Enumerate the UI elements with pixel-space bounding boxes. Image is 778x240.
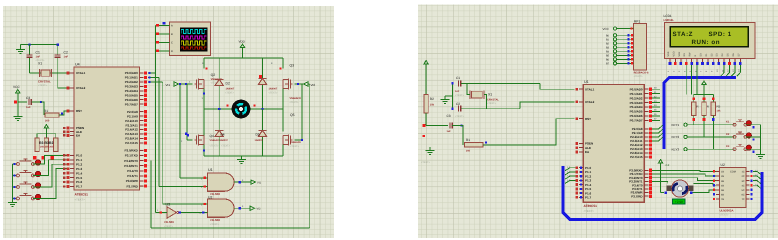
- svg-text:XTAL2: XTAL2: [76, 86, 86, 90]
- wire LCD E drop: [696, 65, 698, 95]
- port KEY1: [672, 123, 688, 127]
- ground (crystal, right panel): [441, 96, 453, 103]
- node junction C2 top: [57, 43, 59, 45]
- resistor R3 (second): [44, 138, 48, 152]
- wire scope channel A: [155, 24, 169, 27]
- resistor pack RP1: [634, 19, 649, 78]
- svg-text:XTAL1: XTAL1: [76, 71, 86, 75]
- wire motor right terminal to ULN: [693, 190, 716, 193]
- transistor Q5: [283, 113, 301, 148]
- AND gate U2 74LS08: [208, 195, 235, 226]
- svg-text:P3.6/WR: P3.6/WR: [126, 179, 139, 183]
- svg-text:COM: COM: [730, 171, 736, 174]
- terminal RP1 pin 7: [606, 58, 634, 62]
- pin 8 P1.7 (U4 left): [63, 185, 83, 189]
- wire motor right to ULN 4B: [694, 184, 717, 186]
- svg-text:2C: 2C: [741, 175, 744, 178]
- svg-text:P2.3/A11: P2.3/A11: [125, 123, 138, 127]
- svg-text:<TEXT>: <TEXT>: [38, 84, 48, 87]
- crystal X1: [38, 62, 52, 88]
- pin 4 4B (U2 ULN left): [713, 184, 725, 187]
- wire P3.1 to ULN 2B: [652, 174, 716, 176]
- wire P0.3 net stub: [652, 100, 660, 103]
- svg-text:P3.2/INT0: P3.2/INT0: [124, 159, 138, 163]
- svg-text:5B: 5B: [721, 189, 724, 192]
- svg-text:CRYSTAL: CRYSTAL: [38, 80, 51, 84]
- bus exit to P2.3: [652, 137, 663, 141]
- pin 3 P1.2 (U4 left): [63, 162, 83, 166]
- terminal RP1 pin 1: [606, 34, 634, 38]
- svg-text:VCC: VCC: [603, 27, 610, 31]
- terminal VCC (RP1 common): [603, 27, 634, 31]
- svg-text:U3: U3: [166, 202, 171, 206]
- oscilloscope channel labels: [171, 25, 173, 53]
- pin 33 P0.6/AD6 (U1 right): [630, 114, 652, 118]
- node junction R1 right: [61, 112, 63, 114]
- crystal X1 (right panel): [467, 83, 499, 108]
- pin 2 P1.1 (U4 left): [63, 158, 83, 162]
- pin 6 P1.5 (U4 left): [63, 176, 83, 180]
- svg-text:VN66AFD: VN66AFD: [290, 141, 301, 144]
- wire U2 output port: [234, 205, 261, 211]
- svg-text:1N4007: 1N4007: [269, 88, 278, 91]
- ULN2003A U2 body: [720, 163, 747, 216]
- pin 19 XTAL1 (U4 left): [67, 71, 86, 75]
- pin 16 P3.6/WR (U1 right): [631, 191, 652, 195]
- wire button1 to P1.0: [33, 155, 67, 164]
- svg-text:<TEXT>: <TEXT>: [290, 145, 300, 148]
- wire U1 input 2: [159, 185, 208, 189]
- svg-text:1N4007: 1N4007: [226, 88, 235, 91]
- pin 10 P3.0/RXD (U1 right): [629, 169, 652, 173]
- wire button4 to P1.3: [33, 169, 67, 199]
- microcontroller U1 AT89C51 body (right): [583, 80, 644, 213]
- pin 22 P2.1/A9 (U1 right): [632, 131, 652, 135]
- pin 30 ALE (U4 left): [63, 130, 82, 134]
- svg-text:1nF: 1nF: [64, 56, 69, 59]
- pin 27 P2.6/A14 (U1 right): [630, 151, 652, 155]
- node junction C3 right (right panel): [460, 124, 462, 126]
- svg-text:C2: C2: [456, 102, 460, 106]
- svg-text:VSS: VSS: [667, 51, 670, 56]
- wire vertical U1 in2 feed: [158, 78, 160, 187]
- pin 38 P0.1/AD1 (U1 right): [630, 92, 652, 96]
- wire Q2 source to motor node: [202, 89, 206, 110]
- svg-text:P3.7/RD: P3.7/RD: [126, 184, 138, 188]
- svg-text:U2: U2: [721, 163, 725, 167]
- pin 16 1C (U2 ULN right): [741, 170, 752, 173]
- pin 18 XTAL2 (U1 left): [575, 100, 594, 104]
- wire scope channel B: [155, 33, 169, 36]
- svg-text:<TEXT>: <TEXT>: [210, 145, 220, 148]
- bus entry P1.0 L1: [565, 166, 576, 171]
- svg-text:P1.5: P1.5: [76, 176, 83, 180]
- wire KEY1 row: [687, 124, 734, 126]
- pin D4 (LCD): [721, 53, 725, 72]
- wire P0.2 feed: [148, 81, 163, 83]
- svg-text:P0.5/AD5: P0.5/AD5: [630, 110, 643, 114]
- svg-text:<TEXT>: <TEXT>: [421, 161, 431, 164]
- pin 11 P3.1/TXD (U1 right): [630, 172, 652, 176]
- svg-text:RST: RST: [585, 117, 591, 121]
- motor speed readout: [673, 199, 686, 204]
- svg-text:R: R: [697, 105, 699, 109]
- resistor R1: [44, 109, 59, 123]
- AND gate U1 74LS08: [208, 168, 235, 196]
- svg-text:VCC: VCC: [13, 85, 20, 89]
- pin 15 2C (U2 ULN right): [741, 175, 752, 178]
- svg-text:D: D: [171, 50, 173, 53]
- oscilloscope body: [170, 22, 211, 56]
- pin 25 P2.4/A12 (U4 right): [125, 128, 147, 132]
- pin 17 P3.7/RD (U4 right): [126, 184, 147, 188]
- wire XTAL2 row: [58, 87, 70, 89]
- svg-text:P2.7/A15: P2.7/A15: [630, 155, 643, 159]
- transistor Q4: [195, 132, 221, 148]
- pin 10 7C (U2 ULN right): [741, 198, 752, 201]
- pin 28 P2.7/A15 (U1 right): [630, 155, 652, 159]
- pin D0 (LCD): [699, 53, 703, 72]
- svg-text:C2: C2: [64, 51, 68, 55]
- svg-text:U4: U4: [75, 63, 80, 67]
- svg-text:D4: D4: [221, 133, 225, 137]
- pin 6 P1.5 (U1 left): [575, 187, 591, 191]
- bus entry P1.2 L3: [565, 175, 576, 180]
- svg-text:XTAL2: XTAL2: [585, 100, 595, 104]
- pin D1 (LCD): [705, 53, 709, 72]
- pin 18 XTAL2 (U4 left): [67, 86, 86, 90]
- svg-text:P3.0/RXD: P3.0/RXD: [124, 149, 138, 153]
- svg-text:P2.1/A9: P2.1/A9: [127, 114, 138, 118]
- svg-text:<TEXT>: <TEXT>: [225, 92, 235, 95]
- capacitor C1: [27, 45, 46, 73]
- node motor left terminal: [664, 191, 667, 194]
- pin 12 5C (U2 ULN right): [741, 189, 752, 192]
- oscilloscope screen with waveforms: [180, 28, 207, 52]
- pin 34 P0.5/AD5 (U1 right): [630, 110, 652, 114]
- pin 1 P1.0 (U1 left): [575, 166, 591, 170]
- button K3: [726, 144, 755, 153]
- svg-text:P2.2/A10: P2.2/A10: [125, 119, 138, 123]
- pin 33 P0.6/AD6 (U4 right): [125, 98, 147, 102]
- svg-text:<TEXT>: <TEXT>: [221, 145, 231, 148]
- wire C2 to XTAL2 (right panel): [461, 102, 575, 109]
- pin D2 (LCD): [710, 53, 714, 72]
- wire crystal top rail: [21, 45, 58, 46]
- button K1: [726, 120, 755, 129]
- pin 26 P2.5/A13 (U4 right): [125, 132, 147, 136]
- power VDD (pull-ups): [702, 81, 706, 95]
- pin 38 P0.1/AD1 (U4 right): [125, 76, 147, 80]
- pin 37 P0.2/AD2 (U4 right): [125, 80, 147, 84]
- pin 31 EA (U1 left): [575, 150, 590, 154]
- wire P0.7 net stub: [652, 118, 660, 121]
- pin D3 (LCD): [716, 53, 720, 72]
- wire P0.6 net stub: [652, 113, 660, 116]
- pin 2 2B (U2 ULN left): [713, 175, 725, 178]
- wire pull-up rail (right panel): [692, 95, 714, 102]
- svg-text:+12: +12: [665, 163, 670, 167]
- power VCC (right panel): [424, 61, 428, 95]
- svg-text:P1.7: P1.7: [76, 185, 83, 189]
- svg-text:R1: R1: [466, 138, 470, 142]
- wire P3.3 to motor coil A: [652, 181, 668, 183]
- wire VI1 to Q2 gate: [179, 81, 193, 86]
- svg-text:R5: R5: [717, 105, 721, 109]
- svg-text:+2.98: +2.98: [675, 200, 683, 204]
- resistor R2 (third): [39, 138, 58, 152]
- svg-text:P0.1/AD1: P0.1/AD1: [630, 92, 643, 96]
- svg-text:P2.0/A8: P2.0/A8: [127, 110, 138, 114]
- wire scope channel C: [155, 41, 169, 44]
- wire motor right lead: [251, 104, 284, 110]
- svg-text:P0.6/AD6: P0.6/AD6: [125, 98, 138, 102]
- pin 3 3B (U2 ULN left): [713, 179, 725, 182]
- pin 15 P3.5/T1 (U4 right): [127, 174, 147, 178]
- pin 39 P0.0/AD0 (U4 right): [125, 71, 147, 75]
- pin 37 P0.2/AD2 (U1 right): [630, 96, 652, 100]
- svg-text:Q5: Q5: [290, 113, 295, 117]
- button S1: [13, 159, 40, 165]
- ground (keys): [756, 151, 765, 158]
- pin 26 P2.5/A13 (U1 right): [630, 147, 652, 151]
- svg-text:P0.6/AD6: P0.6/AD6: [630, 114, 643, 118]
- svg-text:<TEXT>: <TEXT>: [269, 92, 279, 95]
- resistor R1 (right panel): [465, 138, 483, 153]
- wire keys ground vertical: [759, 125, 761, 151]
- svg-text:C1: C1: [36, 51, 40, 55]
- wire P0.0 feed: [148, 72, 155, 74]
- svg-text:7B: 7B: [721, 198, 724, 201]
- svg-text:P0.7/AD7: P0.7/AD7: [630, 119, 643, 123]
- pin 16 P3.6/WR (U4 right): [126, 179, 147, 183]
- pin 6 6B (U2 ULN left): [713, 193, 725, 196]
- wire cap common leg: [451, 82, 453, 110]
- svg-text:P2.7/A15: P2.7/A15: [125, 141, 138, 145]
- svg-text:74LS08: 74LS08: [210, 218, 220, 222]
- svg-text:D5: D5: [256, 133, 260, 137]
- svg-text:U2: U2: [208, 195, 212, 199]
- wire mid node left down: [203, 109, 205, 132]
- svg-text:VDD: VDD: [239, 40, 246, 44]
- wire keypad left bus: [13, 164, 17, 199]
- svg-text:10k: 10k: [717, 110, 722, 113]
- wire R3 bottom to KEY1 row: [692, 115, 695, 124]
- terminal RP1 pin 4: [606, 46, 634, 50]
- capacitor C3: [26, 96, 41, 109]
- pin D6 (LCD): [732, 53, 736, 72]
- pin 12 P3.2/INT0 (U1 right): [629, 176, 652, 180]
- wire mid node right down: [282, 109, 284, 132]
- svg-text:U1: U1: [584, 80, 589, 84]
- svg-text:KEY3: KEY3: [672, 148, 680, 152]
- wire U3 output: [179, 211, 181, 213]
- svg-text:6C: 6C: [741, 194, 744, 197]
- svg-text:P1.6: P1.6: [76, 180, 83, 184]
- pin 14 3C (U2 ULN right): [741, 179, 752, 182]
- pin 13 4C (U2 ULN right): [741, 184, 752, 187]
- pin E (LCD): [694, 55, 698, 73]
- wire Q5 gate feed: [295, 84, 304, 141]
- pin 25 P2.4/A12 (U1 right): [630, 143, 652, 147]
- wire KEY2 row: [687, 136, 734, 138]
- pin 29 PSEN (U1 left): [575, 142, 593, 146]
- pin 36 P0.3/AD3 (U4 right): [125, 85, 147, 89]
- wire KEY3 row: [687, 148, 734, 150]
- svg-text:P1.3: P1.3: [76, 167, 83, 171]
- wire C3 to R1 (right panel): [452, 126, 463, 145]
- svg-text:AT89C51: AT89C51: [75, 193, 89, 197]
- wire R4 bottom to KEY2 row: [703, 115, 706, 137]
- terminal RP1 pin 5: [606, 50, 634, 54]
- node motor right terminal: [690, 191, 693, 194]
- svg-text:P3.3/INT1: P3.3/INT1: [124, 164, 138, 168]
- pin VEE (LCD): [678, 51, 682, 72]
- pin 9 RST (U4 left): [67, 109, 83, 113]
- resistor R3 (key1 pull-up): [692, 102, 699, 115]
- svg-text:P0.1/AD1: P0.1/AD1: [125, 76, 138, 80]
- port VI1: [166, 82, 179, 87]
- pin 4 P1.3 (U4 left): [63, 167, 83, 171]
- pin 5 5B (U2 ULN left): [713, 189, 725, 192]
- motor M1: [232, 100, 251, 119]
- svg-text:P2.5/A13: P2.5/A13: [125, 132, 138, 136]
- wire Q4 source to ground rail: [203, 145, 205, 157]
- microcontroller U4 AT89C51 body: [74, 63, 139, 202]
- bus entry D4: [721, 65, 725, 76]
- node junction R1 right (right panel): [485, 141, 487, 143]
- port KEY3: [672, 148, 688, 152]
- pin D5 (LCD): [727, 53, 731, 72]
- svg-text:<TEXT>: <TEXT>: [487, 102, 497, 105]
- pin 35 P0.4/AD4 (U1 right): [630, 105, 652, 109]
- svg-text:<TEXT>: <TEXT>: [164, 225, 174, 228]
- resistor R2: [424, 94, 435, 113]
- svg-text:P3.1/TXD: P3.1/TXD: [125, 154, 139, 158]
- bus entry D7: [737, 65, 741, 76]
- svg-text:VDD: VDD: [672, 51, 675, 56]
- pin 10 P3.0/RXD (U4 right): [124, 149, 147, 153]
- svg-text:LM016L: LM016L: [664, 18, 675, 22]
- pin 39 P0.0/AD0 (U1 right): [630, 87, 652, 91]
- bus entry P1.1 L2: [565, 170, 576, 175]
- wire C1 to XTAL1 (right panel): [461, 83, 575, 89]
- bus entry D6: [731, 65, 735, 76]
- transistor Q3: [271, 58, 301, 104]
- ground (crystal circuit): [16, 46, 25, 53]
- button S4: [13, 194, 40, 200]
- svg-text:P0.2/AD2: P0.2/AD2: [125, 80, 138, 84]
- svg-text:VI2: VI2: [311, 83, 316, 87]
- pin 34 P0.5/AD5 (U4 right): [125, 93, 147, 97]
- wire R5 bottom to KEY3 row: [712, 115, 715, 149]
- wire U1 output port: [234, 179, 261, 185]
- wire LCD RW drop: [691, 65, 693, 95]
- svg-text:P0.3/AD3: P0.3/AD3: [630, 101, 643, 105]
- svg-text:5C: 5C: [741, 189, 744, 192]
- svg-text:STA:Z: STA:Z: [673, 31, 694, 38]
- svg-text:Q4: Q4: [210, 134, 214, 138]
- terminal RP1 pin 8: [606, 62, 634, 66]
- net state markers below pull-ups: [33, 156, 54, 159]
- pin RS (LCD): [683, 53, 687, 72]
- pin 4 P1.3 (U1 left): [575, 179, 591, 183]
- svg-text:RUN: on: RUN: on: [692, 39, 721, 46]
- button S3: [13, 182, 40, 188]
- svg-text:200: 200: [466, 150, 471, 153]
- pin 28 P2.7/A15 (U4 right): [125, 141, 147, 145]
- terminal RP1 pin 2: [606, 38, 634, 42]
- LCD screen: [670, 26, 750, 48]
- pin 21 P2.0/A8 (U4 right): [127, 110, 147, 114]
- wire button K2 to ground rail: [746, 136, 761, 138]
- pin 5 P1.4 (U4 left): [63, 171, 83, 175]
- svg-text:VI1: VI1: [257, 182, 261, 185]
- svg-text:KEY1: KEY1: [672, 123, 680, 127]
- net state marker D3: [259, 75, 262, 78]
- pin 24 P2.3/A11 (U4 right): [125, 123, 147, 127]
- pin 8 P1.7 (U1 left): [575, 196, 591, 200]
- wire Q3 source to motor node: [282, 89, 284, 110]
- wire button K1 to ground rail: [746, 124, 761, 126]
- svg-text:C: C: [171, 42, 173, 45]
- ground (reset, right panel): [421, 147, 435, 164]
- wire motor left lead: [204, 104, 232, 110]
- svg-text:K1: K1: [726, 121, 730, 124]
- pin 30 ALE (U1 left): [575, 146, 591, 150]
- svg-text:K3: K3: [726, 145, 730, 148]
- bus LCD data: [664, 77, 736, 149]
- svg-text:D2: D2: [226, 82, 230, 86]
- button K2: [726, 132, 755, 141]
- svg-text:XTAL1: XTAL1: [585, 87, 595, 91]
- wire VDD rail: [204, 57, 283, 59]
- bus exit to P2.0: [652, 125, 663, 128]
- svg-text:B: B: [171, 33, 173, 36]
- wire U3 input: [155, 209, 167, 214]
- svg-text:<TEXT>: <TEXT>: [290, 101, 300, 104]
- pin 15 P3.5/T1 (U1 right): [632, 187, 652, 191]
- resistor R5 (key3 pull-up): [711, 102, 721, 115]
- pin 22 P2.1/A9 (U4 right): [127, 114, 147, 118]
- svg-text:P0.2/AD2: P0.2/AD2: [630, 96, 643, 100]
- svg-text:P1.2: P1.2: [76, 162, 83, 166]
- left schematic sheet background: [3, 6, 334, 238]
- svg-text:P3.7/RD: P3.7/RD: [631, 194, 643, 198]
- wire U2 input 1: [163, 203, 208, 207]
- svg-text:P2.6/A14: P2.6/A14: [125, 137, 138, 141]
- svg-text:<TEXT>: <TEXT>: [75, 198, 86, 202]
- svg-text:4B: 4B: [721, 184, 724, 187]
- wire P0.0 net stub: [652, 86, 660, 89]
- pin 35 P0.4/AD4 (U4 right): [125, 89, 147, 93]
- wire P0.1 feed: [148, 76, 159, 78]
- resistor R3 (first): [35, 138, 39, 152]
- diode D3: [258, 58, 278, 109]
- node junction C1 top: [28, 43, 30, 45]
- svg-text:R: R: [707, 105, 709, 109]
- svg-text:<TEXT>: <TEXT>: [634, 75, 644, 78]
- svg-text:1N4007: 1N4007: [220, 139, 229, 142]
- svg-text:6B: 6B: [721, 194, 724, 197]
- pin 19 XTAL1 (U1 left): [575, 87, 594, 91]
- pin 3 P1.2 (U1 left): [575, 174, 591, 178]
- resistor R4 (key2 pull-up): [702, 102, 709, 115]
- wire R1 to RST: [59, 111, 70, 115]
- power +12 (motor): [658, 160, 669, 169]
- LCD LCD1 LM016L body: [664, 14, 756, 59]
- wire Q2 drain: [202, 58, 208, 70]
